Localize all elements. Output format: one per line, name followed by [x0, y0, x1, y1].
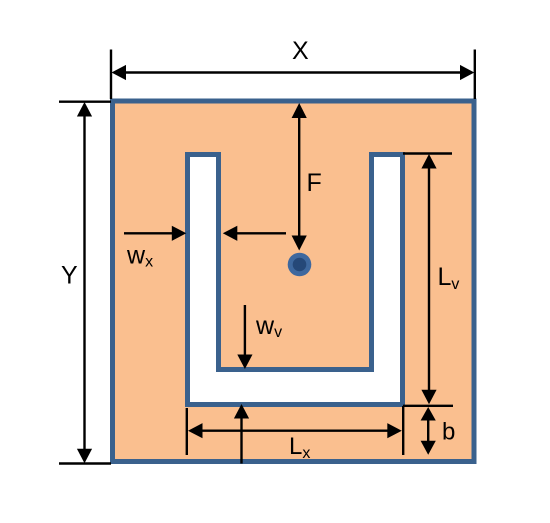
- patch P1 (square microstrip patch): [113, 101, 475, 462]
- dimension L_v: top extension tick: [403, 152, 452, 154]
- dimension w_v: down arrow pointing at slot bottom: [237, 305, 252, 369]
- dimension L_v: double-headed arrow line: [421, 154, 436, 404]
- dimension X: right extension tick: [474, 50, 476, 100]
- dimension b: double-headed arrow between slot bottom tick and patch bottom: [421, 407, 436, 455]
- dimension Y: top extension tick: [59, 100, 111, 102]
- dimension L_v: bottom extension tick: [403, 405, 453, 407]
- dimension w_v: up arrow from bottom edge pointing at slot outer bottom: [234, 404, 249, 464]
- svg-text:Y: Y: [61, 262, 78, 290]
- dimension Y: double-headed arrow line: [77, 102, 92, 463]
- dimension L_x: double-headed arrow line: [188, 423, 402, 438]
- svg-text:F: F: [307, 169, 322, 197]
- dimension Y: bottom extension tick: [59, 462, 111, 464]
- svg-text:b: b: [442, 419, 455, 446]
- dimension w_x: right arrow pointing left at slot arm: [223, 226, 286, 241]
- dimension w_x: left arrow pointing right at slot arm: [124, 226, 186, 241]
- dimension L_x: right extension tick: [402, 406, 404, 455]
- dimension X: left extension tick: [110, 50, 112, 100]
- feed point probe (inner): [293, 258, 307, 272]
- feed point probe (outer): [288, 253, 312, 277]
- svg-text:X: X: [292, 37, 309, 65]
- dimension X: double-headed arrow line: [112, 65, 475, 80]
- dimension L_x: left extension tick: [186, 408, 188, 455]
- U-slot S1: [188, 155, 403, 405]
- dimension F: vertical double arrow from top edge to feed point: [292, 103, 307, 251]
